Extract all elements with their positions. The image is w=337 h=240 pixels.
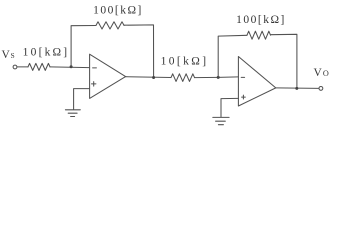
- wire feedback loop 2 top right and right riser: [271, 34, 297, 88]
- node junction C (R3/feedback 2): [217, 76, 220, 79]
- svg-text:10[kΩ]: 10[kΩ]: [23, 47, 70, 59]
- U2 plus sign: [242, 95, 246, 99]
- wire input to R1: [17, 66, 28, 68]
- wire feedback loop 1 left riser and top: [71, 26, 96, 67]
- resistor R4 100k zigzag: [247, 31, 271, 39]
- op-amp U2: [238, 57, 275, 107]
- svg-text:100[kΩ]: 100[kΩ]: [93, 4, 143, 16]
- op-amp U1: [90, 54, 126, 98]
- U2 minus sign: [241, 76, 244, 78]
- output terminal Vo: [319, 87, 323, 91]
- resistor R2 100k zigzag: [96, 22, 124, 29]
- input terminal Vs: [13, 65, 17, 69]
- resistor R1 10k zigzag: [28, 63, 50, 70]
- wire feedback loop 2 left riser and top: [218, 35, 247, 77]
- U1 plus sign: [92, 82, 96, 86]
- svg-text:10[kΩ]: 10[kΩ]: [161, 56, 209, 68]
- wire feedback loop 1 top right and right riser: [124, 25, 154, 78]
- node junction A (R1/feedback): [70, 65, 73, 68]
- svg-text:VO: VO: [314, 67, 329, 79]
- wire U2 plus input to ground: [221, 98, 238, 116]
- wire U1 plus input to ground: [74, 89, 90, 110]
- wire U2 output to terminal: [276, 87, 319, 90]
- wire U1 output to R3: [126, 76, 171, 79]
- U1 minus sign: [93, 67, 97, 69]
- svg-text:VS: VS: [2, 49, 15, 61]
- ground 2: [213, 117, 229, 124]
- node junction D (U2 out/feedback 2): [295, 87, 298, 90]
- svg-text:100[kΩ]: 100[kΩ]: [236, 14, 286, 26]
- node junction B (U1 out/feedback): [152, 76, 155, 79]
- resistor R3 10k zigzag: [171, 74, 195, 82]
- ground 1: [65, 110, 80, 117]
- wire R1 to op-amp U1 minus input: [50, 66, 90, 69]
- wire R3 to op-amp U2 minus input: [195, 76, 239, 79]
